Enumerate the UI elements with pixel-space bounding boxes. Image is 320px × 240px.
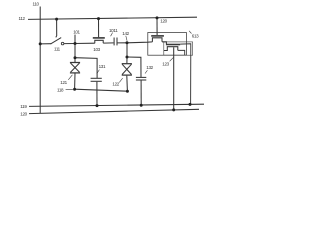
wire capacitor 1011 to node 142	[117, 42, 127, 44]
label lead 131	[97, 70, 100, 74]
wire node 101 label lead and drop to zener node	[74, 35, 76, 58]
switch contact circle	[61, 42, 64, 45]
junction node line A right	[156, 16, 159, 19]
zener 122 top bar	[122, 63, 132, 65]
svg-text:118: 118	[57, 87, 64, 92]
junction node capacitor 132 rail	[140, 104, 143, 107]
zener 122 cross diagonal 2	[122, 64, 131, 74]
capacitor 1011 left plate	[113, 38, 115, 46]
box 613 inner outline around M2	[164, 42, 193, 55]
zener 122 bottom bar	[122, 74, 132, 76]
label lead 118	[66, 88, 73, 90]
zener 121 bottom lead to node 118	[74, 73, 76, 89]
junction node 142	[126, 41, 129, 44]
svg-text:122: 122	[112, 81, 119, 86]
transistor 103 gate bar	[93, 37, 105, 39]
transistor M2 gate bar	[166, 44, 180, 46]
switch fixed terminal drop from line A	[55, 19, 58, 37]
transistor 103 gate lead from line A	[98, 19, 100, 38]
wire from node 142 level to capacitor 132	[127, 57, 141, 77]
label lead 123	[170, 57, 174, 61]
wire from zener 121 top to capacitor 131	[75, 58, 97, 78]
zener 122 bottom lead	[126, 76, 129, 92]
label lead 142	[126, 36, 127, 41]
wire vertical from label 110 down to bottom rail	[39, 7, 41, 114]
wire M2 gate level to right drop to bottom rail	[180, 44, 191, 105]
bottom rail 120	[29, 109, 199, 113]
zener 121 top bar	[70, 62, 80, 64]
junction node 101	[74, 42, 77, 45]
junction node capacitor 131 rail	[96, 104, 99, 107]
zener 121 bottom bar	[70, 72, 80, 74]
zener 121 cross diagonal 2	[71, 63, 80, 72]
zener 122 top lead	[126, 57, 128, 63]
junction node zener 122 top	[126, 56, 129, 59]
capacitor 132 top plate	[136, 76, 146, 78]
wire M2 center tap to bottom rail 2	[173, 47, 175, 110]
capacitor 132 bottom plate	[136, 79, 146, 81]
label lead 1011	[111, 33, 113, 37]
wire B right segment to node 101	[64, 43, 75, 45]
wire from transistor 103 drain to capacitor 1011	[103, 42, 113, 44]
svg-text:119: 119	[20, 104, 27, 109]
transistor M1 gate bar	[151, 35, 164, 37]
box 613 outer outline	[148, 33, 187, 56]
junction node zener 122 bottom	[126, 90, 129, 93]
svg-text:111: 111	[54, 47, 61, 52]
junction node on wire B at x40	[39, 42, 42, 45]
svg-text:132: 132	[146, 65, 153, 70]
capacitor 131 lead to bottom rail	[96, 82, 98, 106]
capacitor 132 lead to bottom rail	[140, 81, 142, 106]
wire B left segment from node to switch hinge	[40, 43, 51, 45]
svg-text:142: 142	[122, 31, 129, 36]
wire M1 drain to M2 gate	[162, 42, 166, 44]
bottom rail 119	[29, 104, 204, 106]
svg-text:123: 123	[162, 61, 169, 66]
capacitor 131 bottom plate	[91, 80, 102, 82]
label lead 132	[145, 70, 147, 73]
junction node M2 drain rail	[189, 103, 192, 106]
transistor M1 gate lead from line A	[156, 18, 158, 35]
svg-text:121: 121	[60, 80, 67, 85]
transistor M1 channel	[152, 38, 162, 42]
svg-text:101: 101	[73, 29, 80, 34]
wire from node 101 to transistor 103 source	[75, 42, 95, 44]
wire M2 drain stub to box bottom	[178, 50, 185, 55]
wire node 142 to box 113	[127, 41, 152, 44]
switch 111 blade	[51, 38, 62, 44]
svg-text:613: 613	[192, 34, 199, 39]
node 112 lead / wire top line A	[28, 17, 197, 19]
label lead 613	[189, 31, 192, 34]
svg-text:112: 112	[19, 16, 26, 21]
svg-text:120: 120	[20, 111, 27, 116]
capacitor 131 top plate	[91, 77, 102, 79]
transistor 103 channel	[95, 40, 103, 43]
svg-text:103: 103	[93, 47, 100, 52]
junction node M2 tap rail 2	[172, 108, 175, 111]
junction node line A switch	[55, 18, 58, 21]
svg-text:110: 110	[33, 1, 40, 6]
junction node 118	[73, 88, 76, 91]
svg-text:1011: 1011	[109, 28, 118, 33]
junction node zener 121 top	[74, 56, 77, 59]
transistor M2 channel	[164, 47, 178, 51]
wire node 142 drop to zener 122	[126, 43, 128, 57]
zener 121 top lead	[74, 58, 76, 62]
svg-text:120: 120	[160, 18, 167, 23]
label lead 121	[68, 75, 72, 80]
wire node 118 to zener 122 bottom	[75, 89, 128, 91]
zener 122 cross diagonal 1	[122, 64, 131, 74]
svg-text:131: 131	[99, 64, 106, 69]
zener 121 cross diagonal 1	[71, 63, 80, 72]
capacitor 1011 right plate	[116, 38, 118, 46]
label lead 122	[119, 78, 122, 82]
junction node line A gate 103	[97, 17, 100, 20]
